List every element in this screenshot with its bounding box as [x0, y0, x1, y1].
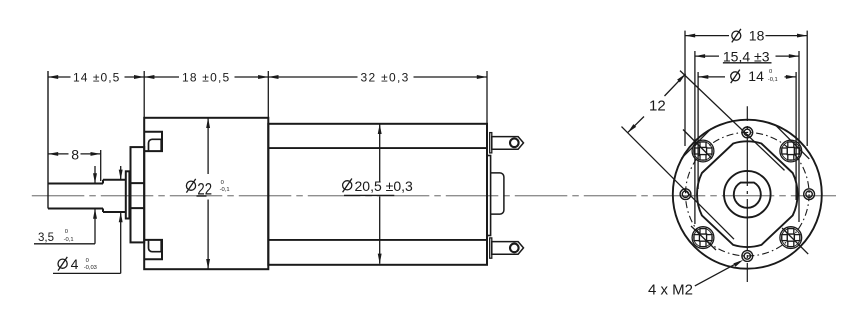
dim line phi14	[698, 76, 796, 78]
arrow 18 left	[144, 75, 154, 79]
svg-text:-0,03: -0,03	[84, 265, 97, 271]
dim line 15,4	[695, 55, 799, 57]
terminal tab bottom neck	[490, 238, 492, 258]
arrow phi22 bottom	[206, 259, 210, 269]
extension line motor rear above	[486, 71, 488, 124]
arrow 15,4 right	[789, 54, 799, 58]
svg-text:-0,1: -0,1	[768, 77, 778, 83]
svg-text:32 ±0,3: 32 ±0,3	[361, 71, 410, 85]
arrow 18 right	[258, 75, 268, 79]
svg-text:20,5 ±0,3: 20,5 ±0,3	[355, 178, 413, 194]
dim line 14	[48, 76, 144, 78]
hole left	[680, 189, 691, 200]
terminal tab bottom hole	[510, 244, 519, 253]
terminal tab bottom	[492, 242, 524, 255]
dim line 8	[48, 153, 101, 155]
terminal tab top hole	[510, 139, 519, 148]
dim phi22 vertical	[207, 118, 209, 269]
label phi14	[731, 70, 740, 84]
arrow 3,5 bottom	[93, 209, 97, 219]
gearbox bottom tab	[144, 240, 162, 259]
terminal tab top	[492, 137, 524, 150]
vertical centerline right view	[746, 106, 748, 282]
arrow 32 left	[268, 75, 278, 79]
M2 holes	[680, 127, 814, 261]
svg-text:4 x M2: 4 x M2	[648, 281, 693, 298]
svg-text:-0,1: -0,1	[64, 237, 74, 243]
label phi22	[186, 179, 195, 193]
dim 3,5 vertical	[34, 166, 95, 244]
motor body	[268, 124, 487, 265]
dim line phi18	[685, 35, 807, 37]
label phi18	[732, 29, 741, 43]
shaft Phi4 section	[103, 180, 126, 212]
ext phi14 left	[697, 72, 699, 189]
hole right	[804, 189, 815, 200]
boss upper-right	[775, 125, 809, 162]
arrowheads left view	[48, 75, 487, 269]
underline 15,4	[723, 62, 772, 64]
arrow 4xM2	[733, 260, 743, 267]
arrow phi20,5 bottom	[378, 254, 382, 264]
brush cap bump	[491, 173, 504, 214]
ext 12 line A	[622, 127, 735, 240]
arrow 32 right	[477, 75, 487, 79]
svg-text:0: 0	[221, 180, 224, 186]
arrow phi4 top	[119, 170, 123, 180]
bosses with knurl cross	[682, 125, 810, 254]
ext 12 line B	[680, 71, 785, 171]
arrow 14 right	[134, 75, 144, 79]
dim line 12	[628, 74, 686, 133]
gearbox body	[144, 118, 268, 269]
boss lower-left	[691, 226, 716, 250]
boss UR tangential edge line	[775, 125, 809, 159]
boss upper-left	[682, 128, 714, 162]
boss LR diagonal axis line	[782, 228, 808, 254]
arrow phi14 right	[786, 75, 796, 79]
boss UL tangential edge line	[682, 128, 712, 158]
arrow 12 upper	[677, 74, 686, 83]
motor flat line bottom	[268, 239, 487, 241]
svg-text:14: 14	[748, 68, 764, 84]
motor flat line top	[268, 147, 487, 149]
shaft circle with flat	[734, 183, 761, 208]
dim phi4 vertical	[53, 166, 121, 273]
arrow 12 lower	[628, 124, 637, 133]
extension line shaft tip	[47, 71, 49, 209]
svg-text:0: 0	[769, 69, 772, 75]
svg-text:12: 12	[649, 97, 666, 114]
svg-text:4: 4	[71, 256, 79, 272]
centerline main horizontal axis	[32, 195, 836, 197]
dim line 18	[144, 76, 268, 78]
arrow 14 left	[48, 75, 58, 79]
shaft step 3.5-to-4	[102, 180, 104, 212]
svg-text:8: 8	[71, 147, 79, 163]
ext 15,4 right	[798, 51, 800, 222]
ext phi14 right	[795, 72, 797, 200]
ext phi18 right	[806, 31, 808, 146]
arrow 8 left	[48, 152, 58, 156]
shaft silhouette behind flange	[131, 183, 144, 208]
ext phi18 left	[684, 31, 686, 146]
arrow 3,5 top	[93, 173, 97, 183]
underline not-to-scale phi22	[197, 195, 207, 197]
outer circle gearbox face	[673, 120, 822, 269]
extension line 8 right	[100, 150, 102, 181]
hole bottom	[742, 251, 753, 262]
boss UL diagonal axis line	[683, 130, 712, 159]
extension line gearbox front above	[143, 71, 145, 118]
arrow phi14 left	[698, 75, 708, 79]
svg-text:0: 0	[65, 229, 68, 235]
bolt circle dashed	[686, 132, 810, 256]
boss lower-right	[780, 227, 808, 254]
dim line 32	[268, 76, 487, 78]
underline not-to-scale phi20,5	[344, 194, 394, 196]
svg-text:14 ±0,5: 14 ±0,5	[73, 71, 120, 85]
arrow phi20,5 top	[378, 124, 382, 134]
svg-text:15,4 ±3: 15,4 ±3	[723, 48, 770, 64]
svg-text:18: 18	[749, 28, 765, 44]
front flange plate	[131, 147, 145, 242]
shaft tip Phi3.5 section	[48, 184, 103, 209]
arrow phi18 right	[797, 34, 807, 38]
gearbox top tab	[144, 132, 162, 151]
arrow phi4 bottom	[119, 212, 123, 222]
pilot plate phi14 with four diagonal flats	[697, 141, 798, 247]
ext 15,4 left	[694, 51, 696, 224]
label phi20,5	[343, 179, 352, 193]
hole top	[742, 127, 753, 138]
texts right view	[648, 28, 778, 299]
washer on shaft	[126, 171, 130, 218]
leader 4xM2	[695, 262, 740, 286]
arrow phi18 left	[685, 34, 695, 38]
arrow 8 right	[91, 152, 101, 156]
svg-text:3,5: 3,5	[38, 232, 54, 244]
label phi4	[58, 257, 67, 271]
terminal tab top neck	[490, 133, 492, 153]
arrow phi22 top	[206, 118, 210, 128]
svg-text:18 ±0,5: 18 ±0,5	[182, 71, 230, 85]
boss LL tangential edge line	[691, 226, 716, 250]
arrow 15,4 left	[695, 54, 705, 58]
svg-text:-0,1: -0,1	[220, 187, 230, 193]
motor end cover plate	[487, 156, 491, 236]
dim phi20,5 vertical	[379, 124, 381, 264]
extension line gearbox rear above	[267, 71, 269, 118]
svg-text:0: 0	[86, 258, 89, 264]
bearing boss circle	[724, 171, 771, 218]
